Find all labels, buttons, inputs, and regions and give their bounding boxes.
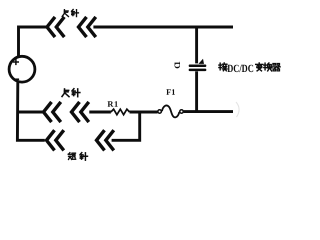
svg-text:DC/DC: DC/DC xyxy=(227,63,254,75)
svg-text:R1: R1 xyxy=(107,100,118,109)
fuse F1: right terminal circle xyxy=(180,110,184,114)
wire: middle row from R1 to fuse F1 left terminal xyxy=(130,111,158,114)
wire: middle row from left rail to first chevron pair xyxy=(17,111,43,114)
voltage source circle xyxy=(9,56,35,82)
pin chevron mid-1b xyxy=(53,102,61,122)
pin chevron top-1a xyxy=(47,17,55,37)
wire: top row from second chevron pair to right end xyxy=(93,26,233,29)
wire: from C1 down to middle row junction xyxy=(195,71,198,113)
pin chevron bot-2b xyxy=(106,130,114,150)
chevron pin arrows: top row (long pin) xyxy=(44,17,114,151)
pin chevron bot-1a xyxy=(47,130,55,150)
svg-text:C1: C1 xyxy=(172,61,182,69)
label: short pin (bottom) xyxy=(68,153,75,160)
capacitor C1: top plate xyxy=(189,65,207,68)
wire: middle row between chevrons and resistor R1 xyxy=(89,111,111,114)
fuse F1: wavy element xyxy=(162,105,179,117)
pin chevron mid-2a xyxy=(72,102,80,122)
pin chevron top-1b xyxy=(56,17,64,37)
faint page artifact arc xyxy=(236,102,239,117)
wire: branch from middle row down to bottom row (right side) xyxy=(112,112,140,141)
wire: capacitor branch from top wire down to C1 xyxy=(195,26,198,64)
wire: top-left corner from source up and right to first long-pin chevron xyxy=(19,27,49,57)
pin chevron bot-2a xyxy=(97,130,105,150)
pin chevron top-2a xyxy=(79,17,87,37)
label: connect to DC/DC converter xyxy=(219,63,227,71)
capacitor C1: polarity triangle mark xyxy=(198,59,204,64)
label: long pin (middle) xyxy=(62,89,69,97)
resistor R1 zigzag xyxy=(111,109,130,115)
pin chevron mid-1a xyxy=(44,102,52,122)
wire: left rail from source bottom to bottom-left corner and bottom row start xyxy=(17,83,44,141)
pin chevron mid-2b xyxy=(81,102,89,122)
svg-text:F1: F1 xyxy=(166,88,175,97)
label: long pin (top) xyxy=(62,10,68,17)
pin chevron top-2b xyxy=(88,17,96,37)
minus sign inside source xyxy=(14,78,19,80)
wire: middle row from fuse right terminal to right end xyxy=(184,110,233,113)
capacitor C1: bottom plate xyxy=(189,69,207,72)
fuse F1: left terminal circle xyxy=(158,110,162,114)
pin chevron bot-1b xyxy=(56,130,64,150)
plus sign inside source xyxy=(13,59,19,65)
